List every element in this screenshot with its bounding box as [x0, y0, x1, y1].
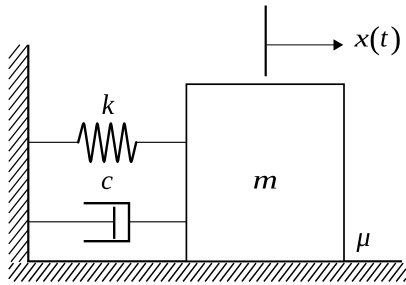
spring k : left wire	[28, 141, 79, 143]
svg-text:μ: μ	[356, 222, 371, 253]
mass m	[186, 84, 344, 261]
svg-text:c: c	[101, 165, 113, 195]
spring k : right wire	[135, 141, 186, 143]
svg-text:): )	[391, 20, 402, 56]
svg-text:(: (	[369, 20, 380, 56]
rod (reference post)	[265, 6, 267, 77]
svg-text:x: x	[354, 23, 370, 52]
arrow x(t)	[267, 39, 344, 50]
svg-text:t: t	[380, 22, 389, 52]
damper c : right rod	[129, 221, 186, 223]
wall	[27, 45, 29, 262]
wall hatching	[9, 45, 28, 262]
floor hatching	[9, 263, 406, 281]
damper c : cylinder (open left)	[84, 203, 129, 241]
label x(t)	[354, 20, 402, 56]
svg-text:m: m	[253, 165, 278, 195]
damper c : left rod	[28, 221, 114, 223]
damper c : piston	[113, 207, 115, 239]
spring k : coil	[78, 123, 136, 161]
floor	[27, 260, 402, 262]
svg-text:k: k	[102, 90, 116, 121]
